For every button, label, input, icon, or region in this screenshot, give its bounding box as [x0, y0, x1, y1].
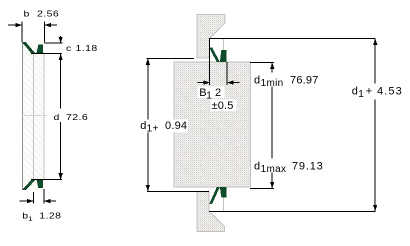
notch top reference line	[209, 38, 376, 40]
dim b: left tail + arrow	[8, 24, 22, 26]
dim d1+4.53: line upper segment + up arrow	[374, 39, 376, 84]
svg-text:b: b	[24, 9, 30, 19]
svg-text:d: d	[254, 75, 260, 87]
svg-text:1: 1	[28, 215, 32, 223]
label B1 2	[198, 87, 225, 99]
label c 1.18	[66, 44, 98, 54]
dim c: top arrow (down) with tail	[60, 36, 62, 43]
bottom lip (green diagonal)	[22, 180, 35, 191]
band right edge	[43, 54, 45, 180]
dim b: extension line right	[43, 21, 45, 42]
dim d1+4.53: line lower segment + down arrow	[374, 100, 376, 212]
B1 right extension	[226, 62, 228, 85]
svg-text:+: +	[366, 85, 373, 97]
dim b1: left tail + arrow	[20, 200, 34, 202]
svg-text:1.28: 1.28	[39, 211, 61, 221]
svg-text:72.6: 72.6	[66, 113, 88, 123]
B1 dimension arrows	[198, 82, 205, 84]
faint bore line bottom notch	[222, 198, 224, 212]
svg-text:±0.5: ±0.5	[212, 100, 234, 112]
svg-text:79.13: 79.13	[292, 161, 324, 173]
dim d1+0.94: line upper segment + up arrow	[147, 59, 149, 121]
dim b1: extension line right	[43, 189, 45, 204]
svg-text:c: c	[66, 44, 72, 54]
svg-text:d: d	[54, 113, 60, 123]
dim d: bottom arrow (down)	[59, 173, 63, 179]
svg-text:4.53: 4.53	[377, 85, 403, 97]
svg-text:d: d	[352, 85, 358, 97]
dim d1+0.94: line lower segment + down arrow	[147, 133, 149, 192]
shaft sleeve (wide rect)	[174, 62, 251, 187]
dim d: line lower segment	[60, 122, 62, 180]
lower housing column	[197, 191, 225, 231]
label d1+ 0.94	[138, 120, 189, 133]
svg-text:1min: 1min	[261, 78, 284, 89]
top lip surface line	[31, 53, 62, 55]
bottom seal block (green)	[220, 187, 227, 197]
svg-text:1.18: 1.18	[76, 44, 98, 54]
bottom lip block (green)	[37, 180, 44, 188]
dim d: line upper segment	[60, 54, 62, 109]
mid reference tick d	[22, 115, 47, 117]
dim c / d shared arrow (up) at lip surface	[59, 54, 63, 60]
svg-text:1max: 1max	[261, 164, 287, 175]
gap connector bottom (d1+0.94 bottom ref)	[147, 190, 209, 192]
dim b: extension line left	[21, 21, 23, 42]
notch wall / B1 left extension	[208, 39, 210, 85]
label d1 + 4.53	[350, 84, 408, 98]
notch bottom reference line	[209, 210, 376, 212]
svg-text:0.94: 0.94	[165, 120, 187, 132]
bottom seal lip (green diagonal)	[209, 187, 220, 204]
top seal block (green)	[220, 50, 227, 62]
top lip block (green)	[37, 45, 44, 54]
dim b1: right tail + arrow	[44, 200, 56, 202]
band middle divider line	[32, 54, 34, 180]
dim c: top connector	[44, 42, 62, 44]
label d 72.6	[54, 113, 89, 123]
upper housing column	[197, 14, 225, 58]
band left edge	[22, 42, 24, 190]
dim d1min/d1max shared line	[271, 63, 273, 73]
label ±0.5	[211, 100, 237, 112]
svg-text:76.97: 76.97	[290, 75, 319, 87]
top lip (green diagonal)	[22, 42, 35, 53]
label d1max 79.13	[253, 159, 324, 173]
svg-text:d: d	[254, 161, 260, 173]
label b 2.56	[24, 9, 60, 19]
bottom lip surface line	[31, 179, 62, 181]
svg-text:1: 1	[358, 89, 364, 100]
label b1 1.28	[22, 211, 61, 222]
dim b: right tail + arrow	[45, 24, 57, 26]
svg-text:2: 2	[215, 87, 221, 99]
svg-text:2.56: 2.56	[37, 9, 59, 19]
faint bore line top notch	[222, 39, 224, 51]
svg-text:1+: 1+	[147, 123, 159, 134]
d1min/d1max connector top	[250, 62, 274, 64]
gap connector top (d1+0.94 top ref)	[147, 57, 195, 59]
seal band body (hatched)	[22, 42, 44, 190]
top seal lip (green diagonal)	[209, 47, 220, 62]
d1min/d1max connector bottom	[250, 187, 274, 189]
label d1min 76.97	[253, 73, 319, 87]
dim b1: extension line left	[33, 192, 35, 204]
